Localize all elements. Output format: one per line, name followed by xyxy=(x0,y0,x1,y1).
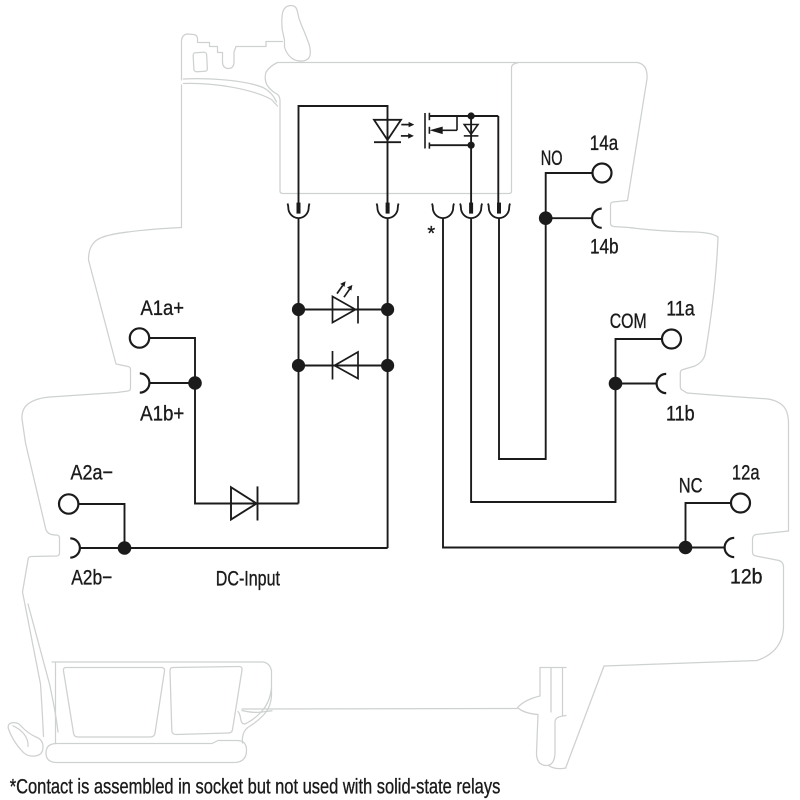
indicator LED (row 1) xyxy=(333,296,359,324)
wire: gate link horizontal xyxy=(442,129,457,131)
left sled (DIN foot) outer xyxy=(52,662,272,743)
socket contact cup 4 xyxy=(460,204,482,219)
svg-text:A1b+: A1b+ xyxy=(140,402,184,425)
label COM xyxy=(610,310,647,334)
svg-text:DC-Input: DC-Input xyxy=(216,567,281,591)
label NC xyxy=(679,475,703,499)
wire: cup2 vertical down to A2 line xyxy=(387,218,389,548)
wire: cup3 down and right to NC node xyxy=(443,218,725,547)
svg-text:14a: 14a xyxy=(590,131,619,155)
gate line xyxy=(424,113,426,149)
junction diode row2 left xyxy=(292,359,305,372)
right foot (S hook) xyxy=(518,668,567,766)
wire: source stub xyxy=(429,144,471,146)
channel segment middle xyxy=(428,127,430,134)
terminal A1b arc xyxy=(140,373,150,392)
left body profile: above A1 down to sled xyxy=(22,85,182,737)
wire: A2a to junction xyxy=(79,504,388,548)
clip lever finger xyxy=(282,6,311,62)
svg-text:NC: NC xyxy=(679,475,703,499)
terminal 14b arc xyxy=(592,209,602,228)
inner wall slant to sled xyxy=(28,604,58,732)
socket contact cup 5 xyxy=(488,204,510,219)
junction A1 node xyxy=(188,376,202,390)
svg-text:14b: 14b xyxy=(590,235,619,259)
wire: NC corner xyxy=(686,503,732,548)
SSR gray box xyxy=(265,63,518,194)
terminal A2b arc xyxy=(70,538,80,557)
junction COM/11 node xyxy=(609,377,623,391)
label 11b xyxy=(666,402,695,426)
junction NC/12 node xyxy=(679,541,693,555)
wire: drain bus xyxy=(429,115,498,117)
label A1a+ xyxy=(141,297,184,321)
wire: row1 indicator LED xyxy=(299,309,388,311)
SSR input LED xyxy=(374,120,401,142)
junction diode row2 right xyxy=(381,359,394,372)
channel segment bottom xyxy=(428,143,430,149)
wire: COM node to 11b arc xyxy=(616,383,657,385)
body diode across MOSFET xyxy=(464,125,479,136)
MOSFET Q1 (SSR output) xyxy=(425,113,498,203)
sled hole 2 xyxy=(170,667,242,735)
sled hole 1 xyxy=(63,668,164,738)
relay pin in cup 1 xyxy=(297,203,301,214)
wire: A1b arc to junction xyxy=(150,382,196,384)
bottom right corner and bottom edge xyxy=(604,628,784,666)
svg-text:A1a+: A1a+ xyxy=(141,297,184,321)
svg-text:A2b−: A2b− xyxy=(71,566,112,590)
svg-text:*: * xyxy=(427,223,435,245)
label DC-Input xyxy=(216,567,281,591)
wire: gate link vertical xyxy=(456,116,458,130)
wire: drain down to cup 5 pin xyxy=(497,116,499,203)
label 12b xyxy=(730,565,762,589)
11b notch to right edge xyxy=(687,393,789,531)
terminal 12a xyxy=(731,494,750,513)
svg-text:12a: 12a xyxy=(732,462,760,485)
svg-text:12b: 12b xyxy=(730,565,762,589)
sled runner (rounded slot) xyxy=(46,740,247,762)
svg-text:11b: 11b xyxy=(666,402,695,426)
label NO xyxy=(541,145,563,170)
relay pin in cup 5 xyxy=(497,203,501,214)
wire: NO node to 14b arc xyxy=(546,217,592,219)
wire: left vertical below cup1 xyxy=(298,218,300,503)
socket contact cup 1 xyxy=(288,204,310,219)
junction LED row1 left xyxy=(292,303,305,316)
terminal 14a xyxy=(593,164,612,183)
label A1b+ xyxy=(140,402,184,425)
wire: A2b arc to junction xyxy=(80,547,125,549)
MOSFET gate arrow xyxy=(431,127,442,133)
channel segment top xyxy=(428,113,430,120)
label 12a xyxy=(732,462,760,485)
wire: source down to cup 4 pin xyxy=(470,116,472,203)
svg-text:*Contact is assembled in socke: *Contact is assembled in socket but not … xyxy=(10,776,501,800)
DC-input series diode xyxy=(231,486,258,520)
right section edge down to 11b notch xyxy=(680,237,718,393)
MOSFET internal dots xyxy=(468,112,475,119)
label 14b xyxy=(590,235,619,259)
LED row1 arrows up-right xyxy=(337,281,352,297)
DIN rail line xyxy=(242,708,517,711)
junction A2 node xyxy=(118,541,132,555)
junction NO/14 node xyxy=(539,211,553,225)
label A2b- xyxy=(71,566,112,590)
reverse protection diode (row 2) xyxy=(333,351,359,380)
junction LED row1 right xyxy=(381,303,394,316)
clip rect hole xyxy=(193,52,207,72)
relay module right profile: 14b notch then slope to right section xyxy=(611,201,719,238)
left hook tab at bottom xyxy=(8,723,43,757)
clip spring curves xyxy=(184,79,264,88)
relay pin in cup 2 xyxy=(386,203,390,214)
label A2a- xyxy=(71,461,113,485)
module top edge xyxy=(278,63,648,201)
12b notch xyxy=(753,531,789,628)
relay pin in cup 4 xyxy=(469,203,473,214)
svg-text:11a: 11a xyxy=(666,297,695,321)
rail lip wedge xyxy=(242,711,272,713)
svg-text:COM: COM xyxy=(610,310,647,334)
wire: NO node xyxy=(499,173,593,459)
socket contact cup 2 xyxy=(377,204,399,219)
wire: row2 diode xyxy=(299,365,388,367)
terminal 11a xyxy=(662,330,681,349)
wire: COM node xyxy=(471,218,662,502)
footnote: *Contact is assembled in socket but not used with solid-state relays xyxy=(10,776,501,800)
diagonal body edge to right foot xyxy=(566,666,604,767)
terminal A1a xyxy=(130,328,149,347)
svg-text:NO: NO xyxy=(541,145,563,170)
SSR LED emission arrows xyxy=(401,122,414,139)
wire: SSR top wire xyxy=(299,106,388,203)
terminal A2a xyxy=(59,494,78,513)
clip body: left tab, arm, steps xyxy=(182,34,283,80)
terminal 11b arc xyxy=(657,374,667,393)
label 14a xyxy=(590,131,619,155)
wire: A1 circle to junction xyxy=(150,338,299,504)
label 11a xyxy=(666,297,695,321)
svg-text:A2a−: A2a− xyxy=(71,461,113,485)
terminal 12b arc xyxy=(725,538,735,557)
socket contact cup 3 (unused, *) xyxy=(432,204,454,219)
